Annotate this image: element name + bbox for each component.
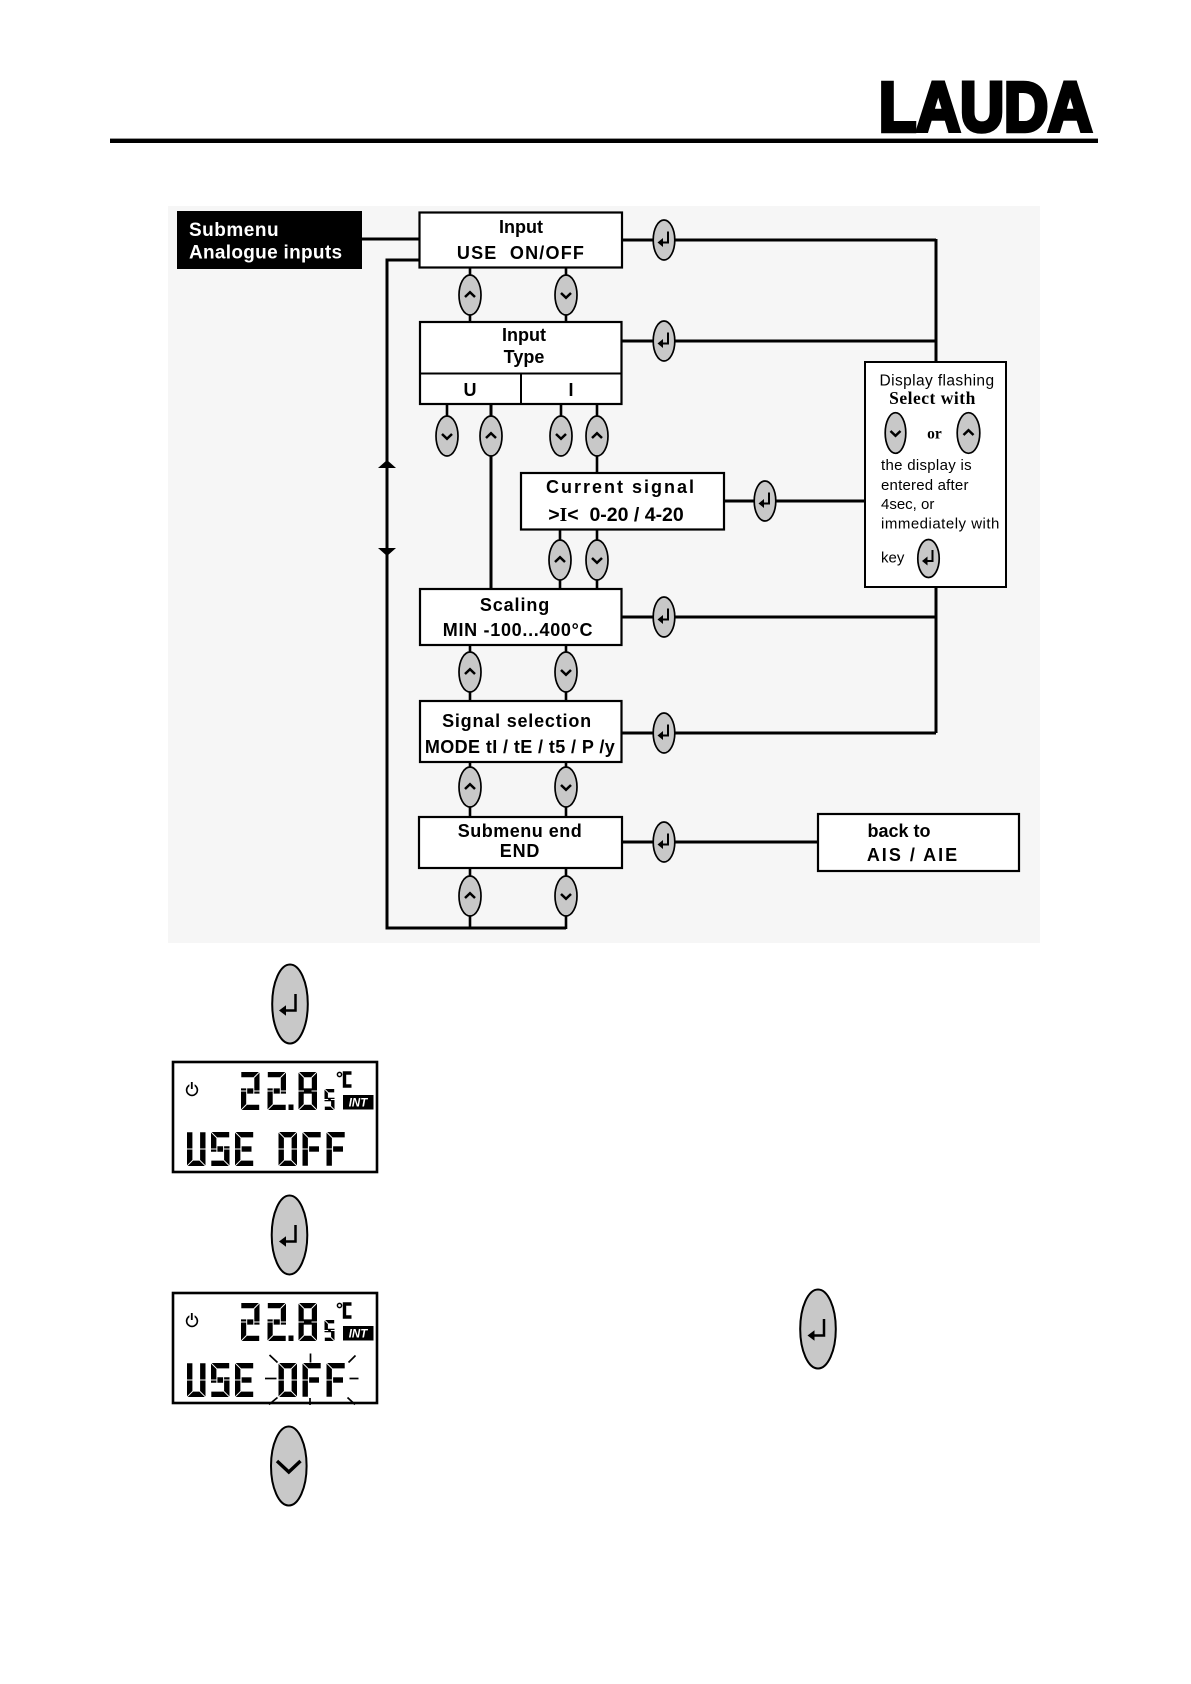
svg-text:INT: INT (349, 1329, 369, 1341)
svg-text:Submenu: Submenu (189, 220, 279, 241)
svg-text:Type: Type (504, 347, 545, 367)
svg-text:4sec, or: 4sec, or (881, 496, 934, 513)
svg-text:Submenu end: Submenu end (458, 821, 583, 841)
svg-text:or: or (927, 426, 942, 443)
svg-text:Current signal: Current signal (546, 477, 696, 497)
svg-text:I: I (568, 380, 573, 400)
svg-text:U: U (464, 380, 477, 400)
svg-text:Select with: Select with (889, 388, 976, 408)
svg-text:MODE tI / tE / t5 / P /y: MODE tI / tE / t5 / P /y (425, 737, 615, 757)
svg-text:the display is: the display is (881, 457, 972, 474)
svg-text:Scaling: Scaling (480, 595, 550, 615)
svg-text:Analogue inputs: Analogue inputs (189, 243, 342, 264)
svg-text:>I< 0-20 / 4-20: >I< 0-20 / 4-20 (548, 504, 684, 526)
svg-text:Input: Input (499, 217, 543, 237)
svg-text:immediately with: immediately with (881, 516, 1000, 533)
svg-text:MIN -100...400°C: MIN -100...400°C (443, 620, 593, 640)
svg-text:AIS / AIE: AIS / AIE (867, 845, 959, 865)
svg-text:back to: back to (867, 821, 930, 841)
svg-text:Input: Input (502, 325, 546, 345)
svg-text:INT: INT (349, 1098, 369, 1110)
svg-text:Signal selection: Signal selection (442, 711, 592, 731)
svg-text:END: END (500, 841, 540, 861)
svg-text:key: key (881, 550, 905, 567)
svg-text:LAUDA: LAUDA (879, 68, 1092, 146)
svg-text:USE ON/OFF: USE ON/OFF (457, 243, 585, 263)
svg-text:entered after: entered after (881, 477, 969, 494)
svg-text:Display flashing: Display flashing (880, 373, 995, 390)
